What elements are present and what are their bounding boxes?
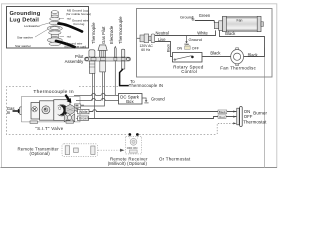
nut 2: [51, 34, 58, 37]
remote transmitter dashed box: [62, 144, 97, 157]
valve inlet fitting: [20, 107, 26, 115]
svg-text:Ground: Ground: [189, 37, 202, 42]
DC spark box: [119, 94, 143, 105]
valve right hex fitting: [66, 104, 75, 114]
washer 2: [49, 31, 62, 35]
svg-text:In: In: [7, 110, 11, 115]
remote dashed connection: [217, 124, 233, 135]
valve terminal stub: [81, 104, 84, 106]
fan: [223, 16, 264, 31]
svg-text:Red: Red: [219, 115, 225, 119]
valve knob 1: [42, 106, 50, 114]
svg-text:nut: nut: [67, 34, 71, 38]
svg-text:Fan: Fan: [237, 19, 243, 23]
svg-text:from lug: from lug: [74, 22, 85, 26]
svg-text:Black: Black: [166, 44, 170, 53]
long brown wire: [77, 117, 237, 119]
leader lines: [35, 19, 64, 37]
svg-text:Black: Black: [210, 51, 221, 56]
svg-text:Black: Black: [225, 31, 236, 36]
lug stack: [47, 11, 62, 46]
thermocouple in arrow: [65, 94, 72, 103]
ground wire from lug (black): [59, 24, 83, 32]
svg-text:Or Thermostat: Or Thermostat: [159, 156, 191, 161]
svg-text:Star washer: Star washer: [17, 36, 33, 40]
valve knob 2: [55, 105, 68, 116]
receiver speaker circle: [130, 138, 137, 145]
svg-text:Live: Live: [158, 37, 166, 42]
dashed link transmitter to receiver: [98, 149, 120, 151]
rotary speed control: [173, 53, 231, 63]
bracket clamps: [91, 58, 125, 61]
electrode wire: [114, 61, 116, 95]
power plug: [137, 34, 155, 43]
wires valve to DC spark box (with hops): [74, 93, 119, 100]
svg-text:Grounding: Grounding: [10, 11, 41, 17]
svg-text:Thermocouple IN: Thermocouple IN: [129, 83, 163, 88]
white wire label box: [78, 109, 90, 114]
svg-text:60 Hz: 60 Hz: [141, 48, 150, 52]
green wire: [195, 20, 215, 22]
right inner vertical line: [264, 48, 266, 168]
transmitter buttons: [65, 146, 95, 155]
electrode rod: [114, 47, 116, 58]
burner thermostat switch: [233, 107, 242, 127]
svg-text:Gas Pilot: Gas Pilot: [101, 26, 106, 44]
gas pilot tube: [81, 72, 105, 106]
ground wire from power cord (black): [56, 41, 75, 47]
arrowhead to receiver: [120, 149, 125, 152]
svg-text:Black: Black: [219, 110, 227, 114]
lug labels: [15, 8, 91, 48]
valve small cross knob: [32, 107, 37, 112]
black label box (thermostat): [218, 110, 227, 114]
svg-text:White: White: [197, 31, 208, 36]
svg-text:Thermocouple: Thermocouple: [118, 16, 123, 44]
svg-text:Control: Control: [181, 69, 197, 74]
valve terminal boxes: [74, 104, 80, 110]
svg-text:White: White: [79, 110, 88, 114]
svg-text:Lug Detail: Lug Detail: [10, 17, 40, 23]
svg-text:Burner: Burner: [253, 111, 267, 116]
page frame: [2, 4, 277, 168]
ground symbol 2: [184, 41, 188, 44]
svg-text:from power cord: from power cord: [65, 45, 87, 49]
ground (fan) symbol: [191, 16, 194, 20]
svg-text:Thermopile: Thermopile: [91, 22, 96, 44]
svg-text:Brown: Brown: [79, 117, 89, 121]
star washer 1: [47, 26, 62, 31]
valve outer frame: [22, 97, 81, 122]
live wire: [155, 42, 173, 57]
thermocouple body below: [121, 61, 124, 69]
thermocouple lead: [120, 69, 129, 86]
pilot bracket: [85, 57, 131, 61]
thermopile body below: [89, 61, 95, 73]
washer: [50, 17, 60, 20]
remote receiver box: [126, 136, 142, 154]
junction dots: [128, 133, 131, 136]
svg-text:OFF: OFF: [192, 46, 200, 50]
fan circuit box: [137, 9, 273, 78]
svg-text:Electrode: Electrode: [109, 25, 114, 44]
lockwasher: [49, 21, 60, 25]
fan thermodisc: [231, 48, 244, 66]
svg-text:Lockwasher: Lockwasher: [24, 24, 40, 28]
top nut: [51, 12, 58, 16]
svg-text:Thermocouple In: Thermocouple In: [33, 89, 73, 95]
DC box ground: [142, 98, 149, 103]
svg-text:ON: ON: [244, 109, 250, 114]
appliance dashed border: [7, 87, 218, 135]
svg-text:Assembly: Assembly: [65, 59, 84, 64]
svg-text:"S.I.T" Valve: "S.I.T" Valve: [35, 126, 63, 131]
plug ground drop: [186, 36, 188, 42]
svg-text:Star washer: Star washer: [15, 44, 31, 48]
svg-text:Black: Black: [248, 53, 259, 58]
white wire (neutral): [155, 30, 216, 35]
valve body: [31, 100, 70, 121]
dot stubs to receiver: [130, 136, 138, 139]
long white wire: [77, 110, 237, 112]
thermocouple rod: [121, 49, 124, 57]
valve bottom tabs: [30, 121, 74, 124]
grounding lug detail box: [7, 7, 89, 49]
black wire (fan): [220, 30, 265, 56]
svg-text:Neutral: Neutral: [156, 31, 169, 36]
svg-text:nut: nut: [67, 17, 71, 21]
svg-text:ON: ON: [177, 46, 183, 50]
gas pilot body below: [100, 61, 106, 72]
base: [49, 42, 61, 46]
svg-text:Green: Green: [199, 13, 211, 18]
bottom frame line: [1, 167, 278, 169]
svg-text:(Optional): (Optional): [30, 151, 51, 156]
brown wire label box: [78, 116, 89, 121]
svg-text:Box: Box: [126, 99, 134, 104]
svg-text:(Millivolt) (Optional): (Millivolt) (Optional): [108, 161, 148, 166]
svg-text:Ground: Ground: [151, 96, 165, 101]
rocker switch icon: [185, 45, 191, 50]
thermopile wire pair: [93, 73, 95, 118]
receiver terminals: [130, 150, 138, 153]
gas pilot hood: [98, 45, 107, 57]
red label box (thermostat): [218, 115, 226, 119]
thermopile (above bracket): [89, 50, 95, 57]
svg-text:(for mobile homes): (for mobile homes): [66, 12, 91, 16]
gas in arrow: [13, 109, 22, 114]
svg-text:OFF ON: OFF ON: [127, 146, 138, 150]
star washer 2: [47, 38, 62, 43]
valve butterfly fitting: [64, 114, 75, 122]
svg-text:Fan Thermodisc: Fan Thermodisc: [220, 65, 256, 70]
fan connector: [214, 21, 222, 31]
svg-text:Ground: Ground: [180, 14, 193, 19]
svg-text:Thermostat: Thermostat: [243, 119, 267, 124]
